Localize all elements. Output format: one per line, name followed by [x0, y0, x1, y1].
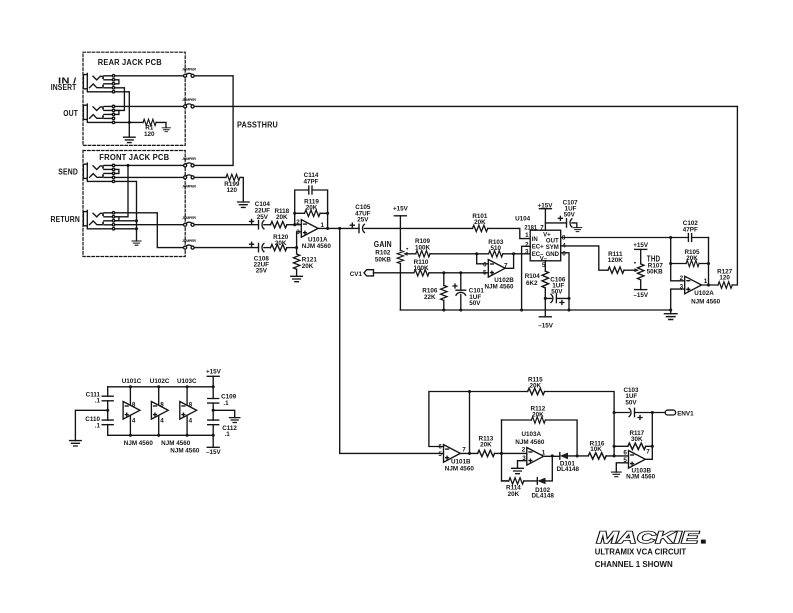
resistor R1 [143, 119, 156, 125]
svg-text:ENV1: ENV1 [677, 410, 694, 417]
svg-text:8: 8 [562, 234, 566, 241]
resistor R113 [478, 450, 495, 456]
svg-text:5: 5 [483, 270, 487, 277]
wire R115 row [470, 392, 615, 413]
svg-text:120: 120 [144, 131, 155, 138]
svg-text:2181: 2181 [524, 224, 537, 231]
resistor R114 [509, 478, 524, 484]
junction V-/C106 [544, 297, 547, 300]
resistor R120 [271, 244, 287, 250]
svg-text:JUMPER: JUMPER [182, 67, 196, 71]
svg-text:JUMPER: JUMPER [182, 157, 196, 161]
svg-text:4: 4 [160, 418, 164, 425]
svg-text:NJM 4560: NJM 4560 [124, 440, 154, 447]
wire U104 V- chain [544, 261, 546, 271]
wire R199 to ground [240, 177, 243, 202]
svg-text:IN: IN [532, 237, 538, 243]
svg-text:30K: 30K [631, 436, 643, 443]
capacitor C103 [629, 408, 634, 416]
svg-text:REAR JACK PCB: REAR JACK PCB [98, 58, 162, 67]
ground left bypass [70, 441, 82, 446]
jack J-send [83, 163, 119, 183]
resistor R116 [588, 453, 606, 459]
op-amp U103A [527, 448, 544, 466]
port CV1 [364, 270, 374, 276]
svg-text:6K2: 6K2 [526, 280, 538, 287]
capacitor C111 [102, 396, 113, 401]
svg-text:1: 1 [704, 278, 708, 285]
svg-text:GND: GND [546, 252, 560, 258]
junction R117 right [651, 445, 654, 448]
wire send tip [115, 164, 184, 166]
wire R109 to R103 [430, 253, 489, 255]
wire U101A output to C105 [318, 227, 359, 229]
wire U104 OUT run [561, 237, 709, 239]
svg-text:120: 120 [719, 274, 730, 281]
left bypass column [107, 387, 109, 436]
capacitor C112 [208, 420, 219, 425]
svg-text:+15V: +15V [393, 206, 409, 213]
wire return ring jumper to C104 [194, 224, 258, 226]
svg-text:10K: 10K [590, 446, 602, 453]
resistor R119 [305, 210, 321, 216]
svg-text:–15V: –15V [206, 449, 222, 456]
resistor R117 [628, 443, 646, 449]
svg-text:3: 3 [296, 229, 300, 236]
wire R113 to U103A pin2 [495, 452, 527, 454]
diode D102 [537, 478, 545, 485]
R107 wiper arrow [634, 268, 639, 272]
svg-text:+15V: +15V [206, 368, 222, 375]
potentiometer R102 [397, 250, 403, 263]
wire R110 to U102B pin5 [429, 272, 488, 274]
wire insert tip to jumper [115, 75, 184, 77]
wire C103 row [614, 412, 665, 414]
svg-text:7: 7 [504, 263, 508, 270]
wire R111 to THD wiper [624, 269, 635, 271]
wire R116 to U103B pin6 [606, 455, 628, 457]
svg-text:1: 1 [542, 450, 546, 457]
svg-text:CV1: CV1 [350, 271, 363, 278]
junction rear sleeve/R1 [128, 121, 131, 124]
op-amp U103B [629, 451, 646, 469]
capacitor C105 [359, 224, 364, 232]
wire C104 to R118 [264, 224, 271, 226]
svg-text:ULTRAMIX VCA CIRCUIT: ULTRAMIX VCA CIRCUIT [595, 548, 687, 557]
svg-text:510: 510 [491, 245, 502, 252]
svg-text:7: 7 [540, 224, 544, 231]
svg-text:3: 3 [525, 249, 529, 256]
op-amp U102C power pins [158, 387, 160, 436]
svg-text:25V: 25V [257, 214, 269, 221]
wire R105 row [671, 263, 709, 265]
capacitor C108 [259, 243, 264, 251]
junction pin2 node [293, 223, 296, 226]
svg-text:U103C: U103C [177, 378, 197, 385]
svg-text:47PF: 47PF [303, 179, 318, 186]
svg-text:SEND: SEND [58, 168, 78, 177]
svg-text:V+: V+ [543, 232, 551, 238]
wire return ring to jumper [115, 224, 184, 226]
svg-text:.1: .1 [95, 423, 101, 430]
capacitor C101 [456, 273, 466, 290]
svg-text:NJM 4560: NJM 4560 [515, 439, 545, 446]
svg-text:–15V: –15V [538, 322, 554, 329]
wire send normal to return [115, 165, 128, 216]
svg-text:4: 4 [189, 418, 193, 425]
wire R103 to U104 pin3 [503, 253, 530, 255]
svg-text:50V: 50V [625, 399, 637, 406]
ground R199 [238, 202, 250, 207]
wire R117 row [614, 445, 652, 447]
junction return r3 [135, 219, 138, 222]
svg-text:INSERT: INSERT [51, 83, 77, 92]
jack J-return [83, 210, 119, 230]
wire R119 row [295, 212, 328, 214]
wire send sleeve down [115, 181, 137, 241]
svg-text:U102C: U102C [150, 378, 170, 385]
svg-text:20K: 20K [686, 255, 698, 262]
wire U103B out up [645, 413, 652, 460]
wire U102B pin6 [477, 254, 489, 264]
junction R106 top [442, 271, 445, 274]
svg-text:MACKIE: MACKIE [597, 528, 700, 547]
ground R121 [291, 276, 303, 281]
svg-text:U101C: U101C [122, 378, 142, 385]
svg-text:1: 1 [321, 222, 325, 229]
svg-text:5: 5 [438, 451, 442, 458]
svg-text:100K: 100K [415, 245, 431, 252]
svg-text:4: 4 [132, 418, 136, 425]
capacitor C106 [545, 297, 569, 299]
wire right ground stub [213, 410, 235, 417]
svg-text:NJM 4560: NJM 4560 [170, 448, 200, 455]
-15V bar U104 [539, 316, 551, 318]
svg-text:2: 2 [680, 275, 684, 282]
svg-text:20K: 20K [530, 383, 542, 390]
ground R1 [162, 128, 170, 132]
svg-text:RETURN: RETURN [51, 215, 81, 224]
wire C105 to R101 [364, 227, 472, 229]
op-amp U102B [488, 260, 505, 278]
svg-text:20K: 20K [532, 412, 544, 419]
wire CV1 to R110 [374, 272, 414, 274]
svg-text:NJM 4560: NJM 4560 [626, 474, 656, 481]
junction R105 left [669, 262, 672, 265]
resistor R103 [489, 251, 503, 257]
resistor R104 [542, 271, 548, 288]
junction R117 left [613, 445, 616, 448]
jumper rear 1 [184, 73, 195, 77]
wire riser to U101A pin3 [297, 232, 302, 248]
wire C114 feedback loop [295, 190, 328, 228]
junction feedback tap [326, 227, 329, 230]
svg-text:5: 5 [542, 262, 546, 269]
op-amp U101B [444, 445, 461, 463]
svg-text:20K: 20K [275, 240, 287, 247]
resistor R112 [531, 417, 545, 423]
capacitor C107 [567, 219, 572, 227]
rail junctions [129, 385, 132, 388]
wire out run to R127 column [194, 105, 737, 107]
svg-text:NJM 4560: NJM 4560 [161, 440, 191, 447]
wire U103A out [544, 455, 560, 457]
svg-text:120K: 120K [608, 257, 624, 264]
wire passthru [194, 76, 233, 166]
svg-text:SYM: SYM [546, 245, 559, 251]
svg-text:+15V: +15V [633, 242, 649, 249]
junction U102B pin6 node [475, 252, 478, 255]
svg-text:7: 7 [462, 447, 466, 454]
svg-text:20K: 20K [480, 441, 492, 448]
junction left mid [106, 409, 109, 412]
resistor R111 [608, 267, 624, 273]
port ENV1 [665, 410, 675, 415]
svg-text:.1: .1 [225, 431, 231, 438]
svg-text:2: 2 [525, 241, 529, 248]
jumper rear 2 [184, 104, 195, 108]
svg-text:100K: 100K [413, 265, 429, 272]
svg-text:6: 6 [623, 449, 627, 456]
junction OUT/C102 [669, 236, 672, 239]
wire C107 to ground [572, 223, 577, 227]
svg-text:6: 6 [562, 251, 566, 258]
svg-text:FRONT JACK PCB: FRONT JACK PCB [99, 153, 169, 162]
svg-text:25V: 25V [256, 268, 268, 275]
jack J-insert [83, 73, 119, 93]
svg-text:50KB: 50KB [647, 269, 664, 276]
ground C107 [573, 228, 582, 232]
svg-text:5: 5 [623, 457, 627, 464]
resistor R110 [414, 270, 429, 276]
ground right bypass [229, 418, 239, 423]
wire left ground stub [75, 410, 107, 440]
wire send ring to jumper [115, 176, 184, 178]
resistor R115 [528, 388, 545, 394]
capacitor C114 [309, 186, 312, 194]
power rails [108, 387, 214, 436]
capacitor C109 [208, 399, 219, 404]
wire R120 to pin3 riser [287, 247, 297, 249]
ground U103B [611, 472, 621, 477]
wire insert sleeve to ground [115, 92, 130, 137]
capacitor C102 [688, 234, 691, 242]
wire R1 feed [115, 121, 143, 123]
junction R119 right [326, 212, 329, 215]
junction C106/GND leg [567, 297, 570, 300]
junction U102A out [707, 283, 710, 286]
junction right mid [212, 409, 215, 412]
junction D102 tap [551, 454, 554, 457]
wire envelope feed down to U101B [340, 228, 444, 453]
svg-text:7: 7 [646, 449, 650, 456]
svg-text:50KB: 50KB [375, 257, 392, 264]
resistor R106 [443, 273, 445, 286]
junction C103 left [613, 411, 616, 414]
wire C102 right leg [708, 238, 710, 286]
wire C108 to R120 [264, 247, 271, 249]
MACKIE logo [597, 528, 706, 547]
capacitor C104 [259, 221, 264, 229]
svg-text:JUMPER: JUMPER [182, 184, 196, 188]
ground front jacks [132, 241, 141, 245]
IC U104 2181 VCA [530, 230, 561, 261]
ground rail [400, 309, 670, 311]
potentiometer R107 THD [635, 248, 647, 250]
svg-text:EC+: EC+ [532, 245, 544, 251]
svg-text:OUT: OUT [546, 239, 559, 245]
junction C103 right [651, 411, 654, 414]
ground rail symbol [670, 310, 672, 314]
svg-text:20K: 20K [508, 491, 520, 498]
svg-text:8: 8 [189, 401, 193, 408]
jumper return 2 [184, 245, 195, 249]
wire U104 GND down to rail [561, 253, 569, 310]
wire U103A pin3 to ground [518, 461, 527, 469]
junction U101B out [468, 452, 471, 455]
wire C107 branch [545, 222, 566, 224]
resistor R199 [226, 174, 240, 180]
wire U104 SYM to R111 [561, 246, 608, 270]
wire out up to feedback [469, 392, 471, 454]
wire R118 to U101A pin2 [287, 224, 301, 226]
svg-text:3: 3 [522, 455, 526, 462]
junction U102B out node [512, 252, 515, 255]
wire +15V to R102 [399, 216, 401, 251]
wire R1 to ground [156, 122, 166, 127]
svg-text:GAIN: GAIN [374, 240, 392, 249]
svg-text:U103A: U103A [521, 431, 541, 438]
wire U103B pin5 to ground [616, 463, 628, 472]
diode D101 [560, 453, 568, 460]
jumper return 1 [184, 222, 195, 226]
svg-text:20K: 20K [302, 263, 314, 270]
junction return r5 [135, 227, 138, 230]
wire jumper to R199 [194, 176, 226, 178]
svg-text:1: 1 [525, 232, 529, 239]
svg-text:50V: 50V [551, 289, 563, 296]
svg-text:U104: U104 [515, 216, 531, 223]
op-amp U101C power pins [129, 387, 131, 436]
wire U102A out to R127 [702, 284, 719, 286]
svg-text:25V: 25V [357, 217, 369, 224]
junction R119 left [293, 212, 296, 215]
svg-text:2: 2 [296, 219, 300, 226]
op-amp U102A [685, 276, 702, 294]
svg-text:JUMPER: JUMPER [182, 216, 196, 220]
wire U102A pin3 to rail [671, 289, 685, 310]
svg-text:JUMPER: JUMPER [182, 239, 196, 243]
junction R112 left leg [500, 452, 503, 455]
svg-text:20K: 20K [276, 214, 288, 221]
op-amp U103C power pins [186, 387, 188, 436]
wire U104 EC+ down to rail [522, 246, 531, 310]
svg-text:6: 6 [438, 443, 442, 450]
jumper send 2 [184, 175, 195, 179]
svg-text:20K: 20K [306, 205, 318, 212]
capacitor C110 [102, 420, 113, 425]
wire R101 to U104 pin1 [488, 228, 531, 238]
rear jack pcb dashed box [83, 52, 185, 145]
svg-text:NJM 4560: NJM 4560 [445, 466, 475, 473]
svg-text:NJM 4560: NJM 4560 [691, 298, 721, 305]
svg-text:OUT: OUT [63, 109, 78, 118]
svg-text:3: 3 [680, 283, 684, 290]
wire insert normal to out jack [115, 88, 125, 111]
resistor R127 [718, 282, 732, 288]
svg-text:DL4148: DL4148 [557, 466, 580, 473]
junction R112 right leg [576, 454, 579, 457]
+15V bar at R102 [394, 215, 406, 217]
svg-text:CHANNEL 1 SHOWN: CHANNEL 1 SHOWN [595, 560, 673, 569]
svg-text:V–: V– [540, 256, 548, 262]
junction C101 top [459, 271, 462, 274]
wire C102/R105 left leg [671, 238, 685, 281]
resistor R105 [686, 260, 699, 266]
resistor R118 [271, 222, 287, 228]
svg-text:22K: 22K [424, 294, 436, 301]
svg-text:50V: 50V [564, 212, 576, 219]
resistor R121 [296, 248, 298, 254]
ground rear jacks [124, 137, 136, 142]
ground U103A [512, 468, 524, 473]
svg-text:6: 6 [483, 261, 487, 268]
-15V feed [207, 446, 219, 448]
svg-text:8: 8 [160, 401, 164, 408]
svg-text:8: 8 [132, 401, 136, 408]
svg-text:NJM 4560: NJM 4560 [302, 243, 332, 250]
svg-text:50V: 50V [469, 300, 481, 307]
op-amp U101A [301, 220, 318, 238]
wire out tip to jumper [115, 105, 184, 107]
jack J-out [83, 104, 119, 124]
wire return contacts to ground column [115, 221, 137, 229]
svg-text:2: 2 [522, 447, 526, 454]
resistor R101 [473, 225, 488, 231]
R102 wiper arrow [407, 253, 416, 255]
svg-text:.1: .1 [95, 398, 101, 405]
junction R115 tap [468, 390, 471, 393]
wire U102B output [505, 254, 513, 269]
junction R105 right [707, 262, 710, 265]
wire pin6 column [613, 413, 615, 456]
junction R120/R121 [295, 246, 298, 249]
svg-text:U102A: U102A [694, 290, 714, 297]
svg-text:NJM 4560: NJM 4560 [484, 283, 514, 290]
resistor R109 [416, 251, 430, 257]
junction pin6 node [613, 454, 616, 457]
svg-text:PASSTHRU: PASSTHRU [237, 121, 278, 130]
front jack pcb dashed box [83, 151, 185, 257]
wire return tip to lower jumper [115, 213, 184, 248]
wire D101 to R116 [568, 455, 588, 457]
wire U101B out [460, 452, 477, 454]
jumper send 1 [184, 163, 195, 167]
+15V feed [207, 375, 219, 377]
wire return sleeve jumper to C108 [194, 247, 258, 249]
svg-text:U101B: U101B [451, 458, 471, 465]
wire U101B pin6 feedback [429, 392, 470, 447]
svg-text:JUMPER: JUMPER [182, 98, 196, 102]
svg-text:DL4148: DL4148 [531, 493, 554, 500]
wire R112 loop [501, 419, 503, 421]
junction envelope tap [338, 227, 341, 230]
svg-text:20K: 20K [474, 219, 486, 226]
wire R114/D102 row [502, 456, 553, 481]
wire R127 up to out run [732, 106, 737, 285]
junction send tip [126, 164, 129, 167]
wire U104 V+ to +15V [544, 209, 546, 231]
